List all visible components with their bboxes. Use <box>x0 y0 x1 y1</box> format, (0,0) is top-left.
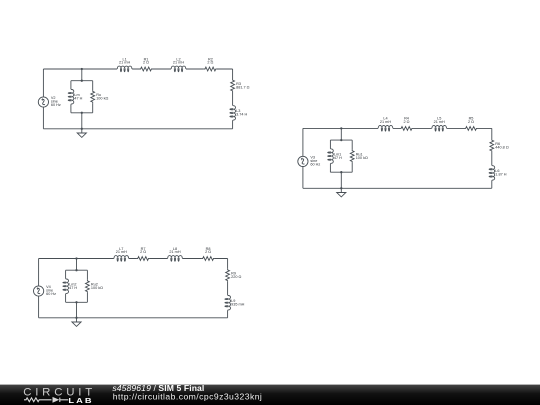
node dot C3 rail junction <box>75 257 77 259</box>
wire: C2 left vertical (source branch) <box>302 128 304 188</box>
resistor Ru <box>91 90 95 103</box>
wire: C3 ground stem <box>76 318 78 322</box>
wire: C1 box bottom to ground node <box>81 113 83 129</box>
svg-text:100 kΩ: 100 kΩ <box>91 286 103 290</box>
wire: C2 box left branch leads <box>329 140 331 172</box>
resistor R4 <box>400 126 413 130</box>
resistor R7 <box>137 257 150 261</box>
footer background bar <box>0 385 540 405</box>
logo text LAB <box>68 397 93 405</box>
svg-text:3.74 H: 3.74 H <box>236 113 247 117</box>
svg-text:21 mH: 21 mH <box>119 61 130 65</box>
resistor R3 <box>231 79 235 92</box>
wire: C1 parallel box bottom edge <box>71 112 93 114</box>
wire: C2 box right branch leads <box>351 140 353 172</box>
logo resistor-diode squiggle <box>24 398 68 402</box>
wire: C2 right vertical segments <box>491 128 493 188</box>
wire: C2 top rail segments <box>303 127 492 129</box>
node dot C1 ground node <box>81 128 83 130</box>
resistor R9 <box>226 269 230 282</box>
wire: C2 box bottom to ground node <box>340 172 342 188</box>
svg-text:2 Ω: 2 Ω <box>140 250 146 254</box>
svg-text:100 kΩ: 100 kΩ <box>96 97 108 101</box>
wire: C3 bottom rail <box>39 317 228 319</box>
svg-text:47 H: 47 H <box>69 286 77 290</box>
wire: C1 parallel box top edge <box>71 80 93 82</box>
svg-text:1.87 H: 1.87 H <box>495 173 506 177</box>
wire: C3 right vertical segments <box>227 259 229 318</box>
svg-text:60 Hz: 60 Hz <box>310 162 320 166</box>
inductor L3 <box>230 105 236 120</box>
resistor Ru1 <box>350 150 354 163</box>
inductor L6 <box>489 165 495 180</box>
voltage source V4 <box>34 286 44 296</box>
wire: C1 rail-to-box connector <box>81 69 83 81</box>
svg-text:935 mH: 935 mH <box>231 303 245 307</box>
logo diode triangle <box>53 397 60 403</box>
wire: C2 bottom rail <box>303 187 492 189</box>
wire: C3 parallel box bottom edge <box>66 301 88 303</box>
svg-text:2 Ω: 2 Ω <box>468 120 474 124</box>
node dot C2 ground node <box>340 187 342 189</box>
svg-text:http://circuitlab.com/cpc9z3u3: http://circuitlab.com/cpc9z3u323knj <box>113 391 262 401</box>
wire: C1 top rail segments <box>43 68 232 70</box>
svg-text:21 mH: 21 mH <box>116 250 127 254</box>
svg-text:21 mH: 21 mH <box>380 120 391 124</box>
ground <box>77 133 86 137</box>
svg-text:2 Ω: 2 Ω <box>205 250 211 254</box>
wire: C3 box right branch leads <box>86 270 88 302</box>
resistor R1 <box>140 67 153 71</box>
voltage source V2 <box>38 97 48 107</box>
wire: C3 box bottom to ground node <box>76 302 78 318</box>
ground <box>72 322 81 326</box>
voltage source V3 <box>298 156 308 166</box>
svg-text:60 Hz: 60 Hz <box>51 103 61 107</box>
svg-text:21 mH: 21 mH <box>173 61 184 65</box>
node dot C2 box bottom <box>340 171 342 173</box>
ground <box>337 193 346 197</box>
wire: C1 box right branch leads <box>92 81 94 113</box>
inductor Lm <box>68 89 74 104</box>
wire: C3 left vertical (source branch) <box>38 259 40 318</box>
wire: C2 rail-to-box connector <box>340 128 342 140</box>
inductor L5 <box>432 125 447 131</box>
svg-text:2 Ω: 2 Ω <box>143 61 149 65</box>
wire: C1 ground stem <box>81 129 83 133</box>
inductor Lm1 <box>328 149 334 164</box>
svg-text:47 H: 47 H <box>74 97 82 101</box>
inductor L8 <box>168 256 183 262</box>
resistor Ru2 <box>86 280 90 293</box>
wire: C3 box left branch leads <box>65 270 67 302</box>
resistor R8 <box>202 257 215 261</box>
svg-text:2 Ω: 2 Ω <box>403 120 409 124</box>
resistor R5 <box>465 126 478 130</box>
resistor R6 <box>490 139 494 152</box>
wire: C3 parallel box top edge <box>66 269 88 271</box>
svg-text:21 mH: 21 mH <box>434 120 445 124</box>
inductor L4 <box>378 125 393 131</box>
wire: C2 parallel box bottom edge <box>330 171 352 173</box>
resistor R2 <box>204 67 217 71</box>
wire: C2 parallel box top edge <box>330 139 352 141</box>
svg-text:100 kΩ: 100 kΩ <box>356 156 368 160</box>
inductor L7 <box>114 256 129 262</box>
wire: C1 bottom rail <box>43 128 232 130</box>
wire: C1 right vertical segments <box>232 69 234 129</box>
svg-text:60 Hz: 60 Hz <box>46 292 56 296</box>
inductor Lm2 <box>63 279 69 294</box>
node dot C1 rail junction <box>81 68 83 70</box>
node dot C2 box top <box>340 139 342 141</box>
wire: C1 box left branch leads <box>70 81 72 113</box>
node dot C1 box bottom <box>81 112 83 114</box>
node dot C2 rail junction <box>340 127 342 129</box>
wire: C2 ground stem <box>340 188 342 192</box>
node dot C3 box bottom <box>75 301 77 303</box>
node dot C1 box top <box>81 80 83 82</box>
svg-text:21 mH: 21 mH <box>169 250 180 254</box>
node dot C3 box top <box>75 269 77 271</box>
svg-text:2 Ω: 2 Ω <box>207 61 213 65</box>
svg-text:LAB: LAB <box>68 397 93 405</box>
wire: C1 left vertical (source branch) <box>42 69 44 129</box>
svg-text:47 H: 47 H <box>334 156 342 160</box>
node dot C3 ground node <box>75 317 77 319</box>
wire: C3 rail-to-box connector <box>76 259 78 271</box>
svg-text:220 Ω: 220 Ω <box>231 275 241 279</box>
wire: C3 top rail segments <box>39 258 228 260</box>
svg-text:440.8 Ω: 440.8 Ω <box>495 145 509 149</box>
inductor L1 <box>117 66 132 72</box>
inductor L9 <box>225 295 231 310</box>
svg-text:881.7 Ω: 881.7 Ω <box>236 85 250 89</box>
inductor L2 <box>171 66 186 72</box>
